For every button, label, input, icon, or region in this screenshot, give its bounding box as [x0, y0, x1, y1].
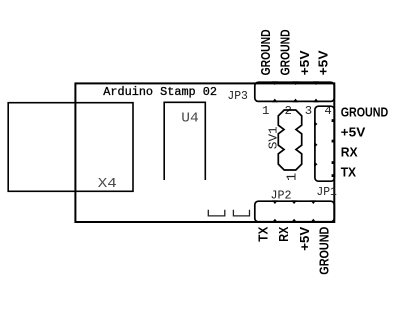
svg-text:JP1: JP1	[316, 185, 337, 199]
svg-text:RX: RX	[341, 144, 358, 159]
svg-text:2: 2	[285, 104, 292, 118]
svg-text:TX: TX	[341, 164, 357, 179]
JP2 pad notches top edge	[272, 200, 316, 204]
svg-text:+5V: +5V	[297, 226, 312, 250]
svg-text:TX: TX	[256, 226, 271, 241]
svg-text:1: 1	[262, 104, 269, 118]
svg-text:GROUND: GROUND	[341, 105, 389, 120]
connector JP3 box	[255, 82, 334, 101]
JP1 pad notches left edge	[314, 121, 317, 167]
solder pad bracket 1	[208, 210, 225, 216]
JP3 pad notches bottom edge	[272, 99, 319, 103]
svg-text:+5V: +5V	[316, 50, 331, 75]
IC U4	[164, 102, 205, 180]
svg-text:GROUND: GROUND	[258, 29, 273, 75]
svg-text:3: 3	[305, 104, 312, 118]
connector X4	[8, 103, 133, 192]
svg-text:SV1: SV1	[267, 126, 281, 149]
svg-text:1: 1	[285, 173, 300, 181]
svg-text:+5V: +5V	[297, 50, 312, 75]
svg-text:U4: U4	[181, 110, 199, 126]
jumper SV1 outline	[278, 110, 301, 170]
board outline	[75, 83, 334, 222]
svg-text:Arduino Stamp 02: Arduino Stamp 02	[103, 85, 217, 99]
JP3 pad notches top edge	[272, 81, 319, 85]
svg-text:GROUND: GROUND	[277, 29, 292, 75]
svg-text:GROUND: GROUND	[317, 227, 332, 275]
svg-text:JP2: JP2	[271, 188, 292, 202]
svg-text:+5V: +5V	[341, 124, 366, 139]
solder pad bracket 2	[233, 210, 249, 216]
connector JP1 box	[315, 106, 335, 181]
connector JP2 box	[255, 201, 334, 222]
svg-text:X4: X4	[98, 176, 117, 192]
svg-text:RX: RX	[276, 226, 291, 241]
JP1 pad marks right edge	[332, 119, 335, 122]
JP2 pad notches bottom edge	[272, 219, 316, 223]
svg-text:JP3: JP3	[227, 89, 248, 103]
